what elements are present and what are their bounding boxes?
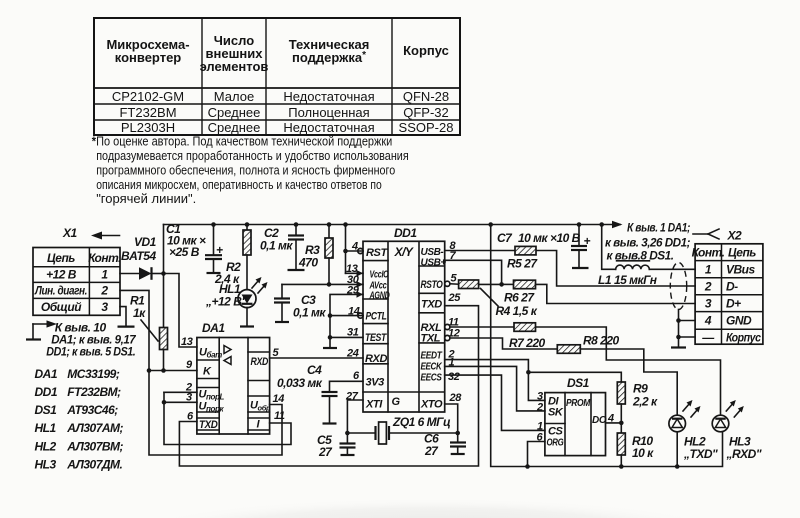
svg-text:TEST: TEST — [365, 332, 387, 344]
resistor R1 1k — [130, 294, 168, 371]
svg-text:VccIO: VccIO — [370, 270, 389, 281]
svg-text:DD1: DD1 — [35, 385, 58, 399]
svg-text:Полноценная: Полноценная — [288, 105, 369, 120]
wire RXD link DA1 pin5 to DD1 pin24 — [270, 357, 363, 359]
table footnote — [92, 134, 409, 207]
wire XTO down — [445, 404, 458, 443]
svg-text:SK: SK — [548, 407, 564, 419]
svg-text:подразумевается проработанност: подразумевается проработанность и удобст… — [96, 148, 409, 163]
svg-text:АЛ307ДМ.: АЛ307ДМ. — [66, 458, 122, 472]
wire DS1 ORG to +5V line — [528, 442, 545, 467]
svg-text:470: 470 — [298, 256, 318, 270]
svg-text:QFN-28: QFN-28 — [403, 89, 449, 104]
resistor R2 2.4k — [214, 225, 251, 290]
text rail destination note — [605, 221, 690, 263]
wire junction to DA1 pin 13 — [164, 274, 197, 348]
svg-text:1: 1 — [705, 263, 712, 277]
svg-text:HL3: HL3 — [35, 458, 57, 472]
wire USB+ down to R6 node — [445, 260, 502, 284]
wire K line down to U_obr link — [149, 371, 282, 456]
svg-text:ORG: ORG — [547, 438, 564, 449]
LED HL1 +12V — [205, 277, 268, 327]
wire X1 pin3 to ground — [120, 307, 126, 327]
wire USB- through R5 to D- — [445, 251, 695, 287]
svg-text:Цепь: Цепь — [47, 251, 75, 265]
wire shield to ground — [676, 310, 695, 348]
svg-text:„TXD": „TXD" — [683, 447, 718, 461]
svg-text:PCTL: PCTL — [366, 311, 388, 323]
svg-text:R7 220: R7 220 — [509, 336, 546, 350]
svg-text:SSOP-28: SSOP-28 — [399, 120, 454, 135]
wire TXL through R8 to HL2 — [450, 338, 677, 415]
svg-text:4: 4 — [704, 314, 712, 328]
ground C4 — [323, 422, 337, 424]
svg-text:XTO: XTO — [420, 399, 443, 411]
node crystal left — [345, 431, 350, 436]
svg-text:TXL: TXL — [421, 333, 441, 345]
ground X1 pin3 — [118, 326, 135, 328]
capacitor C6 27 — [424, 432, 466, 459]
capacitor C4 0.033uF — [277, 363, 338, 424]
svg-text:описания микросхем, оперативно: описания микросхем, оперативность и каче… — [96, 177, 382, 192]
wire RSTO through R4 to node — [450, 283, 459, 285]
svg-text:+: + — [216, 243, 223, 257]
svg-text:D+: D+ — [726, 297, 741, 311]
diode VD1 BAT54 — [121, 235, 164, 280]
wire RXL through R7 to HL3 — [450, 327, 721, 415]
svg-text:28: 28 — [449, 392, 463, 404]
capacitor C7 10uF 10V — [497, 225, 591, 269]
wire AGND/PCTL/TEST to ground — [328, 294, 363, 348]
svg-text:13: 13 — [181, 336, 193, 348]
svg-text:R4 1,5 к: R4 1,5 к — [496, 304, 538, 318]
wire +12V vertical (rail corner down through junction to R1) — [163, 225, 165, 328]
wire +5V vertical and bottom feed line — [491, 225, 723, 467]
svg-text:R8 220: R8 220 — [583, 334, 620, 348]
svg-text:R5 27: R5 27 — [507, 257, 538, 271]
svg-text:4: 4 — [351, 241, 358, 253]
svg-text:Недостаточная: Недостаточная — [283, 89, 374, 104]
svg-text:RXD: RXD — [365, 353, 387, 365]
ground AGND — [323, 347, 337, 349]
X2 label and socket symbol — [693, 229, 742, 243]
svg-text:+: + — [584, 234, 591, 248]
svg-text:G: G — [392, 396, 401, 408]
svg-text:3: 3 — [705, 297, 712, 311]
svg-text:TXD: TXD — [421, 299, 442, 311]
svg-text:CP2102-GM: CP2102-GM — [112, 89, 184, 104]
svg-text:АЛ307ВМ;: АЛ307ВМ; — [66, 440, 123, 454]
svg-text:3V3: 3V3 — [366, 377, 385, 389]
svg-text:15 мкГн: 15 мкГн — [614, 273, 658, 287]
svg-text:RXD: RXD — [251, 356, 269, 368]
svg-text:QFP-32: QFP-32 — [403, 105, 449, 120]
node R2 on rail — [245, 222, 250, 227]
node K line — [147, 368, 152, 373]
svg-text:2: 2 — [704, 280, 712, 294]
wire crystal left segment — [347, 432, 375, 434]
IC DD1 FT232BM — [357, 226, 450, 412]
resistor R9 2.2k — [617, 382, 658, 423]
svg-text:2,2 к: 2,2 к — [632, 395, 658, 409]
node R3 on rail — [327, 222, 332, 227]
capacitor C5 27 — [317, 433, 356, 459]
ground C1 — [207, 272, 221, 274]
svg-text:DD1; к выв. 5 DS1.: DD1; к выв. 5 DS1. — [46, 345, 135, 359]
svg-text:поддержка*: поддержка* — [292, 50, 366, 65]
svg-text:25: 25 — [448, 292, 462, 304]
node crystal right — [455, 431, 460, 436]
svg-text:CS: CS — [548, 426, 564, 438]
wire rail to RST and VccIO — [343, 225, 363, 274]
node R10 on +5V line — [619, 464, 624, 469]
connector X2 — [692, 244, 763, 345]
svg-text:FT232BM;: FT232BM; — [67, 385, 121, 399]
resistor R4 1.5k — [459, 280, 538, 318]
resistor R7 220 — [509, 323, 546, 350]
svg-text:Малое: Малое — [214, 89, 254, 104]
node +12V junction after VD1 — [161, 271, 166, 276]
svg-text:10 мк ×10 В: 10 мк ×10 В — [518, 231, 581, 245]
svg-text:27: 27 — [345, 391, 359, 403]
svg-text:RSTO: RSTO — [421, 279, 444, 291]
wire XTI to crystal — [347, 400, 363, 443]
svg-text:GND: GND — [726, 314, 752, 328]
svg-text:24: 24 — [346, 348, 359, 360]
node C7 on rail — [577, 222, 582, 227]
resistor R3 470 — [298, 225, 333, 285]
IC DS1 AT93C46 — [545, 376, 607, 456]
svg-text:DS1: DS1 — [35, 403, 58, 417]
svg-text:DO: DO — [592, 415, 607, 426]
node R4/R6/USB+ — [499, 282, 504, 287]
node L1 feed on rail — [599, 222, 604, 227]
svg-text:Общий: Общий — [41, 300, 82, 314]
svg-text:HL1: HL1 — [35, 421, 57, 435]
text K vyv.10 note — [26, 320, 137, 358]
svg-text:„RXD": „RXD" — [726, 447, 762, 461]
svg-text:MC33199;: MC33199; — [67, 367, 120, 381]
svg-text:АЛ307АМ;: АЛ307АМ; — [66, 421, 123, 435]
svg-text:Конт.: Конт. — [692, 246, 725, 260]
svg-text:AT93C46;: AT93C46; — [66, 403, 118, 417]
svg-text:3: 3 — [101, 300, 108, 314]
capacitor C1 10uF 25V — [166, 222, 223, 273]
svg-text:AGND: AGND — [369, 291, 390, 302]
svg-text:К выв. 1 DA1;: К выв. 1 DA1; — [627, 221, 690, 235]
svg-text:BAT54: BAT54 — [121, 249, 156, 263]
svg-text:X1: X1 — [62, 226, 78, 240]
node R1 bottom — [161, 368, 166, 373]
wire X1 pin1 to VD1 anode — [120, 273, 139, 275]
comparison table — [94, 18, 460, 135]
wire DA1 pins 2,3 to pin 11 — [162, 392, 291, 444]
svg-text:D-: D- — [726, 280, 738, 294]
svg-text:DS1: DS1 — [567, 376, 590, 390]
wire +12V top rail — [164, 221, 623, 228]
svg-text:Корпус: Корпус — [726, 331, 761, 345]
wire EEDT to DS1 DI and R9 branch — [445, 360, 622, 401]
svg-text:2: 2 — [100, 284, 108, 298]
svg-text:PROM: PROM — [566, 398, 591, 409]
node R3 bottom on AVcc wire — [327, 282, 332, 287]
shield cable oval — [670, 263, 686, 310]
ground HL1 — [240, 325, 254, 327]
wire X1 pin2 to DA1 pin 9 (K) — [120, 290, 197, 370]
svg-text:DA1: DA1 — [35, 367, 58, 381]
wire DS1 DO to node — [606, 422, 622, 424]
wire AVcc (C3/R3 to DD1 pin 30) — [282, 283, 363, 285]
node ORG on +5V line — [525, 464, 530, 469]
svg-text:10 к: 10 к — [632, 446, 654, 460]
svg-text:1: 1 — [101, 268, 108, 282]
node +5V vertical on rail — [488, 222, 493, 227]
svg-text:USB+: USB+ — [421, 258, 447, 269]
node C1 on rail — [211, 222, 216, 227]
svg-text:DA1: DA1 — [202, 321, 225, 335]
ground X2 — [671, 346, 686, 348]
ground C2 — [288, 269, 305, 271]
svg-text:*По оценке автора. Под качеств: *По оценке автора. Под качеством техниче… — [92, 134, 393, 149]
svg-text:27: 27 — [318, 445, 333, 459]
resistor R5 27 — [507, 246, 538, 270]
svg-text:+12 В: +12 В — [46, 268, 77, 282]
node DO/R9/R10 — [619, 421, 624, 426]
svg-text:×25 В: ×25 В — [169, 245, 200, 259]
svg-text:„+12 В": „+12 В" — [205, 295, 247, 309]
svg-text:XTI: XTI — [365, 399, 383, 411]
resistor R10 10k — [617, 423, 654, 467]
svg-text:ZQ1 6 МГц: ZQ1 6 МГц — [392, 415, 451, 429]
wire EECK to DS1 SK — [445, 366, 545, 411]
svg-text:к выв. 3,26 DD1;: к выв. 3,26 DD1; — [605, 236, 690, 250]
node HL2 on +5V line — [675, 464, 680, 469]
wire crystal right segment — [389, 432, 458, 434]
resistor R6 27 — [502, 280, 536, 304]
svg-text:11: 11 — [274, 410, 285, 422]
svg-text:2: 2 — [536, 402, 543, 414]
capacitor C3 0.1uF — [274, 284, 326, 322]
wire EECS to DS1 CS — [445, 375, 545, 430]
node RST/VccIO vertical on rail — [343, 222, 348, 227]
svg-text:VD1: VD1 — [134, 235, 157, 249]
svg-text:DD1: DD1 — [394, 226, 417, 240]
svg-text:TXD: TXD — [199, 419, 218, 431]
svg-text:29: 29 — [346, 285, 360, 297]
capacitor C2 0.1uF — [260, 225, 304, 271]
svg-text:EECS: EECS — [421, 373, 443, 384]
svg-text:программного обеспечения, полн: программного обеспечения, полнота и ясно… — [96, 162, 395, 177]
svg-text:конвертер: конвертер — [115, 50, 182, 65]
wire 3V3 to C4 — [330, 381, 364, 392]
svg-text:0,1 мк: 0,1 мк — [260, 239, 293, 253]
svg-text:27: 27 — [424, 444, 439, 458]
ground C6 — [451, 453, 465, 455]
svg-text:EEDT: EEDT — [421, 351, 443, 362]
LED HL2 TXD — [669, 400, 718, 467]
inductor L1 15uH — [598, 225, 695, 288]
ground C3 — [275, 321, 289, 323]
svg-text:—: — — [701, 331, 715, 345]
X1 label and plug arrow — [62, 226, 120, 240]
connector X1 — [33, 248, 121, 316]
svg-text:Среднее: Среднее — [208, 105, 261, 120]
svg-text:Лин. диагн.: Лин. диагн. — [34, 284, 87, 298]
svg-text:1к: 1к — [133, 306, 146, 320]
ground C5 — [341, 454, 355, 456]
svg-text:Конт.: Конт. — [88, 251, 121, 265]
svg-text:31: 31 — [347, 327, 359, 339]
svg-text:HL2: HL2 — [35, 440, 57, 454]
svg-text:Цепь: Цепь — [728, 246, 756, 260]
crystal ZQ1 6MHz — [376, 415, 452, 444]
svg-text:элементов: элементов — [200, 59, 269, 74]
svg-text:X/Y: X/Y — [394, 245, 414, 259]
svg-text:R9: R9 — [633, 382, 648, 396]
wire R6 to D+ — [536, 284, 696, 303]
svg-text:14: 14 — [273, 393, 285, 405]
svg-text:VBus: VBus — [726, 263, 756, 277]
svg-text:R6 27: R6 27 — [504, 291, 535, 305]
resistor R8 220 — [557, 334, 619, 354]
node C2 on rail — [294, 222, 299, 227]
svg-text:"горячей линии".: "горячей линии". — [96, 191, 196, 206]
svg-text:USB-: USB- — [421, 247, 445, 258]
svg-text:C4: C4 — [307, 363, 322, 377]
wire TXD net DD1 pin25 to DA1 pin6 — [179, 306, 478, 466]
svg-text:FT232BM: FT232BM — [119, 105, 176, 120]
svg-text:32: 32 — [448, 371, 460, 383]
op-amp/IC DA1 MC33199 — [197, 321, 271, 434]
svg-text:L1: L1 — [598, 273, 612, 287]
svg-text:C7: C7 — [497, 231, 513, 245]
svg-text:14: 14 — [348, 306, 360, 318]
svg-text:0,1 мк: 0,1 мк — [293, 306, 326, 320]
svg-text:EECK: EECK — [421, 362, 443, 373]
LED HL3 RXD — [712, 400, 762, 461]
text parts list — [35, 367, 124, 472]
svg-text:Корпус: Корпус — [403, 43, 449, 58]
svg-text:RST: RST — [366, 247, 388, 259]
ground C7 — [572, 267, 589, 269]
svg-text:0,033 мк: 0,033 мк — [277, 376, 323, 390]
svg-text:X2: X2 — [727, 229, 743, 243]
